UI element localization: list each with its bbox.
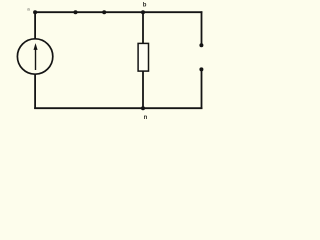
terminal dot right lower — [199, 67, 203, 71]
svg-text:b: b — [143, 2, 147, 8]
resistor R box — [138, 43, 148, 71]
wire left vertical upper segment — [34, 11, 36, 39]
wire top horizontal b-net — [34, 11, 202, 13]
current source I1 arrowhead — [34, 43, 38, 50]
junction dot node n — [141, 106, 145, 110]
junction dot top wire 2 — [102, 10, 106, 14]
wire middle vertical lower segment — [142, 71, 144, 109]
junction dot top-left corner — [33, 10, 37, 14]
current source I1 circle — [17, 39, 52, 74]
wire right vertical lower segment — [201, 70, 203, 110]
svg-text:n: n — [144, 115, 148, 121]
wire middle vertical upper segment — [142, 11, 144, 44]
current source I1 arrow shaft — [35, 49, 37, 71]
junction dot node b — [141, 10, 145, 14]
wire bottom horizontal n-net — [34, 107, 202, 109]
wire right vertical upper segment — [201, 11, 203, 45]
wire left vertical lower segment — [34, 74, 36, 109]
terminal dot right upper — [199, 43, 203, 47]
junction dot top wire 1 — [74, 10, 78, 14]
